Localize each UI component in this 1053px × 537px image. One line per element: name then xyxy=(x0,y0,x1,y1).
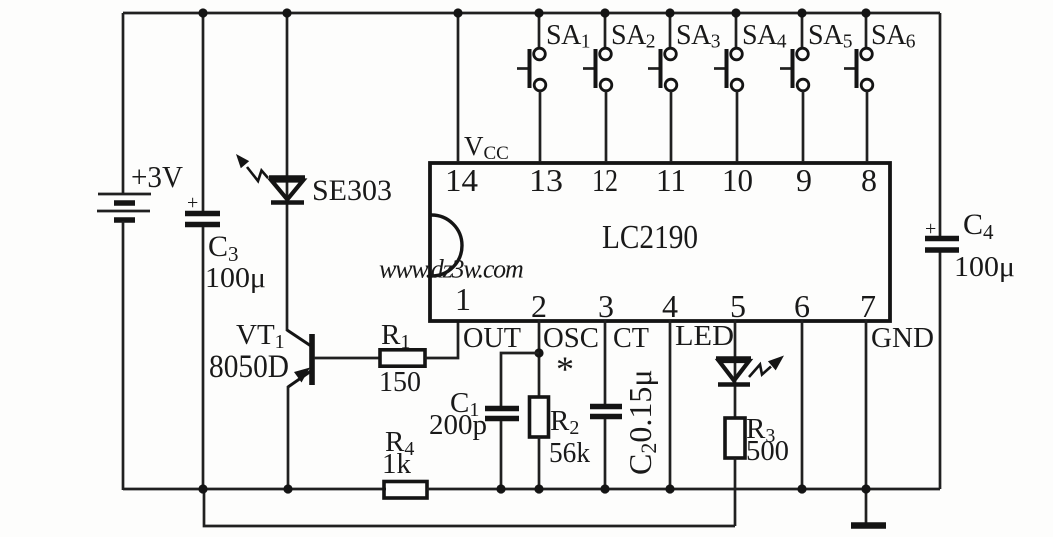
svg-text:10: 10 xyxy=(722,162,753,198)
wire battery negative to bottom rail xyxy=(122,221,125,490)
resistor R2 56k xyxy=(530,397,591,469)
node junction R2 bottom rail xyxy=(534,484,543,493)
svg-text:*: * xyxy=(556,349,574,389)
svg-text:150: 150 xyxy=(379,366,421,398)
node junction SA1 top rail xyxy=(534,8,543,17)
svg-text:OUT: OUT xyxy=(463,322,521,354)
svg-text:www.dz3w.com: www.dz3w.com xyxy=(379,255,523,284)
svg-text:8: 8 xyxy=(861,162,877,198)
switch SA4 xyxy=(714,13,787,162)
switch SA5 xyxy=(780,13,852,162)
wire SE303 cathode to VT1 collector xyxy=(286,205,289,331)
svg-text:CT: CT xyxy=(613,322,649,354)
node junction at pin2 branch xyxy=(534,348,543,357)
node junction C2 bottom rail xyxy=(600,484,609,493)
node junction SA4 top rail xyxy=(731,8,740,17)
resistor R1 150 xyxy=(379,319,425,398)
capacitor C1 200p xyxy=(429,387,519,441)
svg-text:12: 12 xyxy=(592,162,618,198)
node junction VT1 emitter bottom rail xyxy=(283,484,292,493)
switch SA6 xyxy=(844,13,916,162)
LED VD2 indicator xyxy=(716,356,784,385)
resistor R3 500 xyxy=(725,413,789,467)
node junction SA2 top rail xyxy=(600,8,609,17)
svg-text:C20.15μ: C20.15μ xyxy=(622,370,661,476)
svg-text:11: 11 xyxy=(656,162,686,198)
node junction pin7 bottom rail xyxy=(861,484,870,493)
svg-text:1: 1 xyxy=(455,281,471,317)
wire pin 2 down to R2 xyxy=(538,320,541,398)
wire VT1 emitter to bottom rail xyxy=(287,386,290,490)
node junction C3 bottom rail xyxy=(198,484,207,493)
svg-text:LC2190: LC2190 xyxy=(602,219,698,256)
wire pin 14 to top rail xyxy=(457,13,460,162)
wire LED to R3 xyxy=(734,387,737,418)
node junction SA5 top rail xyxy=(797,8,806,17)
switch SA3 xyxy=(648,13,720,162)
svg-text:100μ: 100μ xyxy=(954,251,1015,283)
wire bottom ground rail (left of R4) xyxy=(123,488,386,491)
svg-text:+: + xyxy=(925,218,936,240)
svg-text:1k: 1k xyxy=(382,448,412,480)
ground symbol xyxy=(851,490,886,526)
wire R2 to bottom rail xyxy=(538,437,541,490)
svg-text:200p: 200p xyxy=(429,409,487,441)
svg-text:SE303: SE303 xyxy=(312,174,392,207)
battery GB +3V xyxy=(97,159,184,220)
svg-text:9: 9 xyxy=(796,162,812,198)
svg-text:56k: 56k xyxy=(549,437,590,469)
node junction pin14 top rail xyxy=(453,8,462,17)
wire pin 4 to bottom rail xyxy=(669,320,672,490)
wire VT1 base to R1 xyxy=(314,357,381,360)
node junction SA3 top rail xyxy=(665,8,674,17)
wire right edge lower xyxy=(939,251,942,489)
wire pin2 junction to C1 xyxy=(501,353,539,407)
resistor R4 1k xyxy=(382,426,427,498)
wire C2 to bottom rail xyxy=(604,419,607,490)
svg-text:5: 5 xyxy=(730,288,746,324)
wire R3 down across rail to lower return wire xyxy=(734,458,737,526)
switch SA1 xyxy=(517,13,590,162)
node junction pin6 bottom rail xyxy=(797,484,806,493)
svg-text:13: 13 xyxy=(529,162,563,198)
svg-text:LED: LED xyxy=(675,320,734,352)
svg-text:100μ: 100μ xyxy=(205,262,266,294)
svg-text:+3V: +3V xyxy=(131,159,184,194)
node junction pin4 bottom rail xyxy=(665,484,674,493)
node junction SA6 top rail xyxy=(861,8,870,17)
wire lower return rail xyxy=(204,490,735,526)
wire C3 branch from top rail xyxy=(202,13,205,211)
wire C1 to bottom rail xyxy=(500,421,503,490)
svg-text:7: 7 xyxy=(860,288,876,324)
svg-text:6: 6 xyxy=(794,288,810,324)
svg-text:500: 500 xyxy=(746,435,789,467)
svg-text:+: + xyxy=(187,192,198,214)
wire C3 to bottom rail xyxy=(202,227,205,490)
wire top supply rail xyxy=(123,12,940,15)
wire pin 6 to bottom rail xyxy=(801,320,804,490)
svg-text:8050D: 8050D xyxy=(209,349,289,385)
capacitor C2 0.15u xyxy=(590,370,661,476)
node junction C1 bottom rail xyxy=(496,484,505,493)
wire pin 5 to LED xyxy=(734,320,737,387)
wire bottom ground rail (right of R4) xyxy=(427,488,940,491)
wire pin 7 to bottom rail xyxy=(865,320,868,490)
switch SA2 xyxy=(583,13,655,162)
svg-text:2: 2 xyxy=(531,288,547,324)
wire R1 to pin 1 xyxy=(425,320,458,358)
svg-text:4: 4 xyxy=(662,288,678,324)
svg-text:GND: GND xyxy=(871,322,934,354)
LED SE303 infrared emitter diode xyxy=(236,154,392,207)
wire SE303 branch from top rail xyxy=(286,13,289,205)
wire right edge upper xyxy=(939,13,942,237)
capacitor C4 100u xyxy=(925,208,1015,283)
node junction SE303 top rail xyxy=(282,8,291,17)
wire pin 3 down to C2 xyxy=(604,320,607,405)
IC U1 LC2190 xyxy=(430,163,890,321)
wire left edge from rail to battery xyxy=(122,13,125,194)
svg-text:3: 3 xyxy=(598,288,614,324)
transistor VT1 8050D xyxy=(209,319,312,387)
svg-text:14: 14 xyxy=(445,162,478,198)
node junction C3 top rail xyxy=(198,8,207,17)
capacitor C3 100u xyxy=(185,192,266,294)
